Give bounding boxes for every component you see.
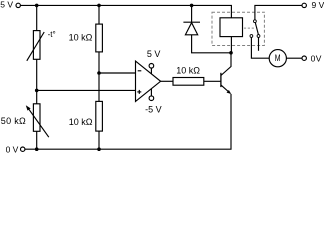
svg-text:0V: 0V — [311, 54, 322, 64]
diode D1 triangle — [185, 23, 197, 35]
op-amp minus sign — [138, 70, 142, 72]
diode D1 flyback wire top — [191, 5, 193, 22]
svg-text:-t°: -t° — [48, 30, 56, 39]
wire diode anode to collector node — [192, 35, 231, 53]
svg-text:-5 V: -5 V — [145, 104, 162, 114]
thermistor diagonal — [27, 32, 44, 61]
wire minus-input horizontal — [99, 72, 136, 74]
svg-text:9 V: 9 V — [312, 0, 324, 10]
wire relay bottom pin — [230, 37, 232, 53]
potentiometer 50k body — [33, 104, 40, 132]
terminal 0V right — [302, 56, 306, 60]
switch throw contact left — [250, 35, 253, 38]
svg-text:10 kΩ: 10 kΩ — [69, 32, 93, 42]
relay linkage dashes — [244, 27, 254, 29]
node dot divider junction — [97, 71, 101, 75]
switch common wire to 9V rail — [255, 5, 302, 19]
resistor 10k output body — [173, 78, 204, 86]
switch throw contact right — [257, 35, 260, 38]
wire motor to 0V terminal — [286, 57, 302, 59]
op-amp triangle — [136, 61, 161, 101]
node dot top rail thermistor branch — [35, 4, 39, 8]
node dot thermistor/pot junction — [35, 89, 39, 93]
wire resistor to base — [204, 80, 221, 82]
svg-text:5 V: 5 V — [147, 49, 161, 59]
diode D1 cathode bar — [183, 21, 200, 23]
svg-text:5 V: 5 V — [0, 0, 13, 10]
wire emitter to bottom rail and bottom rail — [25, 94, 231, 149]
transistor emitter — [221, 85, 231, 94]
node dot bottom rail 10k — [97, 147, 101, 151]
node dot top rail 10k branch — [97, 4, 101, 8]
wire 10k branch vertical — [98, 5, 100, 101]
wire top rail 5V — [20, 5, 231, 17]
transistor collector — [221, 53, 231, 76]
wire right throw stub — [258, 37, 260, 50]
op-amp +supply stub — [150, 68, 152, 74]
terminal 5V — [16, 3, 20, 7]
transistor Q1 base bar — [220, 73, 222, 87]
switch arm — [255, 23, 258, 35]
motor M1 circle — [269, 50, 286, 67]
node dot top rail diode branch — [190, 4, 194, 8]
svg-text:50 kΩ: 50 kΩ — [1, 116, 26, 126]
op-amp -supply stub — [150, 89, 152, 96]
relay coil K1 — [220, 18, 243, 37]
svg-text:0 V: 0 V — [6, 144, 19, 154]
wire thermistor branch vertical — [36, 5, 38, 103]
switch common contact circle — [254, 20, 257, 23]
resistor 10k upper body — [96, 24, 103, 52]
svg-text:M: M — [275, 53, 281, 63]
terminal 9V — [302, 3, 306, 7]
op-amp plus sign — [137, 91, 141, 93]
potentiometer arrow — [28, 108, 49, 137]
wire pot to bottom rail — [36, 131, 38, 149]
terminal 0V bottom-left — [21, 147, 25, 151]
resistor 10k lower body — [96, 101, 103, 131]
node dot bottom rail pot — [35, 147, 39, 151]
wire lower 10k to bottom rail — [98, 131, 100, 149]
wire op-amp output — [161, 80, 173, 82]
svg-text:10 kΩ: 10 kΩ — [69, 117, 93, 127]
relay dashed enclosure — [212, 12, 264, 45]
node dot collector/diode/relay — [229, 51, 233, 55]
wire plus-input horizontal — [37, 89, 136, 91]
wire left throw to motor — [251, 37, 269, 58]
thermistor body — [33, 31, 40, 60]
svg-text:10 kΩ: 10 kΩ — [176, 66, 200, 76]
